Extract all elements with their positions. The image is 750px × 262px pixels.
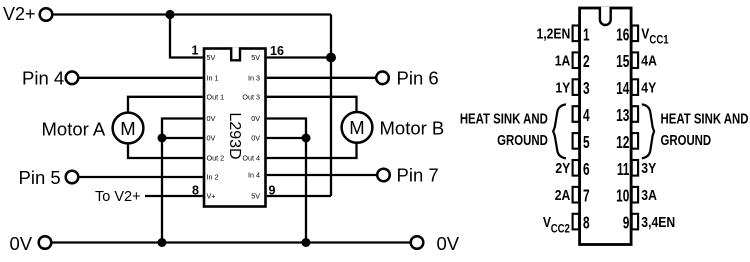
wire 0V upper-right (267, 119, 306, 139)
svg-text:3,4EN: 3,4EN (641, 214, 675, 230)
svg-text:13: 13 (616, 106, 629, 126)
svg-text:1Y: 1Y (555, 79, 570, 95)
DIP pin 16 lead (632, 26, 638, 42)
svg-text:1A: 1A (555, 52, 571, 68)
svg-text:Pin 5: Pin 5 (19, 167, 61, 188)
wire 0V lower-right (267, 137, 306, 139)
DIP pin 1 lead (573, 26, 579, 42)
svg-text:GROUND: GROUND (497, 131, 548, 148)
DIP pin 2 lead (573, 52, 579, 68)
terminal Pin 5 (66, 171, 79, 184)
svg-text:M: M (349, 117, 364, 138)
svg-text:5V: 5V (251, 192, 260, 201)
terminal Pin 4 (66, 72, 79, 85)
svg-text:0V: 0V (437, 233, 460, 254)
junction dot right 0V (302, 134, 311, 143)
svg-text:7: 7 (583, 186, 590, 206)
svg-text:3Y: 3Y (641, 160, 656, 176)
wire right 0V vertical to rail (305, 138, 307, 243)
wire left 0V vertical to rail (161, 138, 163, 243)
svg-text:12: 12 (616, 133, 629, 153)
svg-text:9: 9 (269, 183, 276, 197)
svg-text:3: 3 (583, 79, 590, 99)
svg-text:15: 15 (616, 52, 630, 72)
wire Motor A bottom to Out 2 (128, 143, 203, 158)
svg-text:To V2+: To V2+ (95, 189, 141, 205)
DIP pin 10 lead (632, 187, 638, 203)
svg-text:HEAT SINK AND: HEAT SINK AND (661, 110, 749, 127)
brace left pins 4-5 (553, 104, 566, 158)
svg-text:M: M (120, 118, 135, 139)
svg-text:Out 4: Out 4 (242, 154, 260, 163)
svg-text:In 2: In 2 (207, 173, 219, 182)
svg-text:0V: 0V (10, 233, 33, 254)
DIP pin 8 lead (573, 214, 579, 230)
svg-text:3A: 3A (641, 187, 657, 203)
svg-text:V2+: V2+ (3, 4, 36, 24)
terminal Pin 6 (376, 72, 389, 85)
DIP pin 15 lead (632, 52, 638, 68)
svg-text:Pin 6: Pin 6 (397, 68, 439, 89)
svg-text:V+: V+ (207, 192, 216, 201)
wire V2+ junction down to pin 1 (5V) (170, 15, 203, 58)
svg-text:Motor A: Motor A (42, 118, 106, 139)
DIP notch (600, 7, 611, 25)
DIP package body (580, 8, 632, 245)
svg-text:0V: 0V (207, 114, 216, 123)
junction dot rail right (302, 238, 311, 247)
wire Out 1 to Motor A top (128, 97, 203, 113)
wire 0V upper-left (162, 119, 203, 139)
wire To V2+ to V+ pin 8 (145, 195, 203, 197)
junction dot left 0V (158, 134, 167, 143)
svg-text:6: 6 (583, 159, 590, 179)
svg-text:1,2EN: 1,2EN (536, 26, 570, 42)
svg-text:8: 8 (583, 213, 590, 233)
DIP pin 11 lead (632, 160, 638, 176)
wire In 4 to Pin 7 (267, 174, 378, 176)
svg-text:2A: 2A (555, 187, 571, 203)
DIP pin 13 lead (632, 106, 638, 122)
junction dot V2+ rail (165, 10, 174, 19)
svg-text:16: 16 (616, 25, 629, 45)
svg-text:V: V (641, 26, 649, 42)
svg-text:1: 1 (583, 25, 590, 45)
svg-text:CC2: CC2 (551, 222, 570, 235)
svg-text:Pin 7: Pin 7 (397, 165, 439, 186)
svg-text:HEAT SINK AND: HEAT SINK AND (460, 110, 548, 127)
wire Pin 5 to In 2 (79, 176, 203, 178)
DIP pin 3 lead (573, 79, 579, 95)
svg-text:In 1: In 1 (207, 73, 219, 82)
wire top rail from V2+ (53, 13, 331, 15)
wire Pin 4 to In 1 (79, 77, 203, 79)
wire bottom 0V rail (52, 241, 411, 243)
IC U1 body L293D (204, 49, 266, 207)
motor M A (113, 113, 144, 144)
svg-text:5V: 5V (207, 53, 216, 62)
terminal 0V left (39, 236, 52, 249)
svg-text:Motor B: Motor B (380, 118, 445, 139)
svg-text:10: 10 (616, 186, 629, 206)
wire pin 16 5V (267, 56, 331, 58)
terminal V2+ (40, 8, 53, 21)
svg-text:L293D: L293D (226, 112, 243, 159)
svg-text:5: 5 (583, 133, 590, 153)
svg-text:9: 9 (623, 213, 630, 233)
brace right pins 13-12 (642, 104, 654, 158)
svg-text:2: 2 (583, 52, 590, 72)
svg-text:4A: 4A (641, 52, 657, 68)
svg-text:5V: 5V (251, 53, 260, 62)
svg-text:4: 4 (583, 106, 590, 126)
DIP pin 6 lead (573, 160, 579, 176)
svg-text:2Y: 2Y (555, 160, 570, 176)
wire 0V lower-left (162, 137, 203, 139)
wire Out 3 to Motor B top (267, 97, 357, 112)
svg-text:14: 14 (616, 79, 630, 99)
svg-text:16: 16 (270, 44, 284, 58)
svg-text:0V: 0V (251, 114, 260, 123)
DIP pin 5 lead (573, 133, 579, 149)
DIP pin 9 lead (632, 214, 638, 230)
junction dot pin16 5V bus (326, 53, 336, 63)
svg-text:Out 1: Out 1 (207, 92, 225, 101)
terminal Pin 7 (377, 169, 390, 182)
svg-text:4Y: 4Y (641, 79, 656, 95)
DIP pin 7 lead (573, 187, 579, 203)
wire right vertical V2+ bus (330, 15, 332, 197)
junction dot rail left (158, 238, 167, 247)
wire pin 9 5V (267, 195, 331, 197)
DIP pin 12 lead (632, 133, 638, 149)
svg-text:8: 8 (192, 183, 199, 197)
svg-text:In 3: In 3 (248, 73, 260, 82)
IC U1 notch (231, 47, 240, 60)
DIP pin 14 lead (632, 79, 638, 95)
svg-text:Out 2: Out 2 (207, 154, 225, 163)
motor M B (342, 112, 373, 143)
terminal 0V right (411, 236, 424, 249)
svg-text:0V: 0V (251, 134, 260, 143)
svg-text:Pin 4: Pin 4 (22, 68, 64, 89)
svg-text:Out 3: Out 3 (242, 92, 260, 101)
svg-text:0V: 0V (207, 134, 216, 143)
svg-text:11: 11 (617, 159, 630, 179)
svg-text:CC1: CC1 (649, 34, 668, 47)
svg-text:GROUND: GROUND (661, 131, 712, 148)
DIP pin 4 lead (573, 106, 579, 122)
svg-text:In 4: In 4 (248, 171, 260, 180)
wire Motor B bottom to Out 4 (267, 143, 357, 158)
svg-text:1: 1 (192, 44, 199, 58)
wire In 3 to Pin 6 (267, 77, 377, 79)
svg-text:V: V (543, 214, 551, 230)
